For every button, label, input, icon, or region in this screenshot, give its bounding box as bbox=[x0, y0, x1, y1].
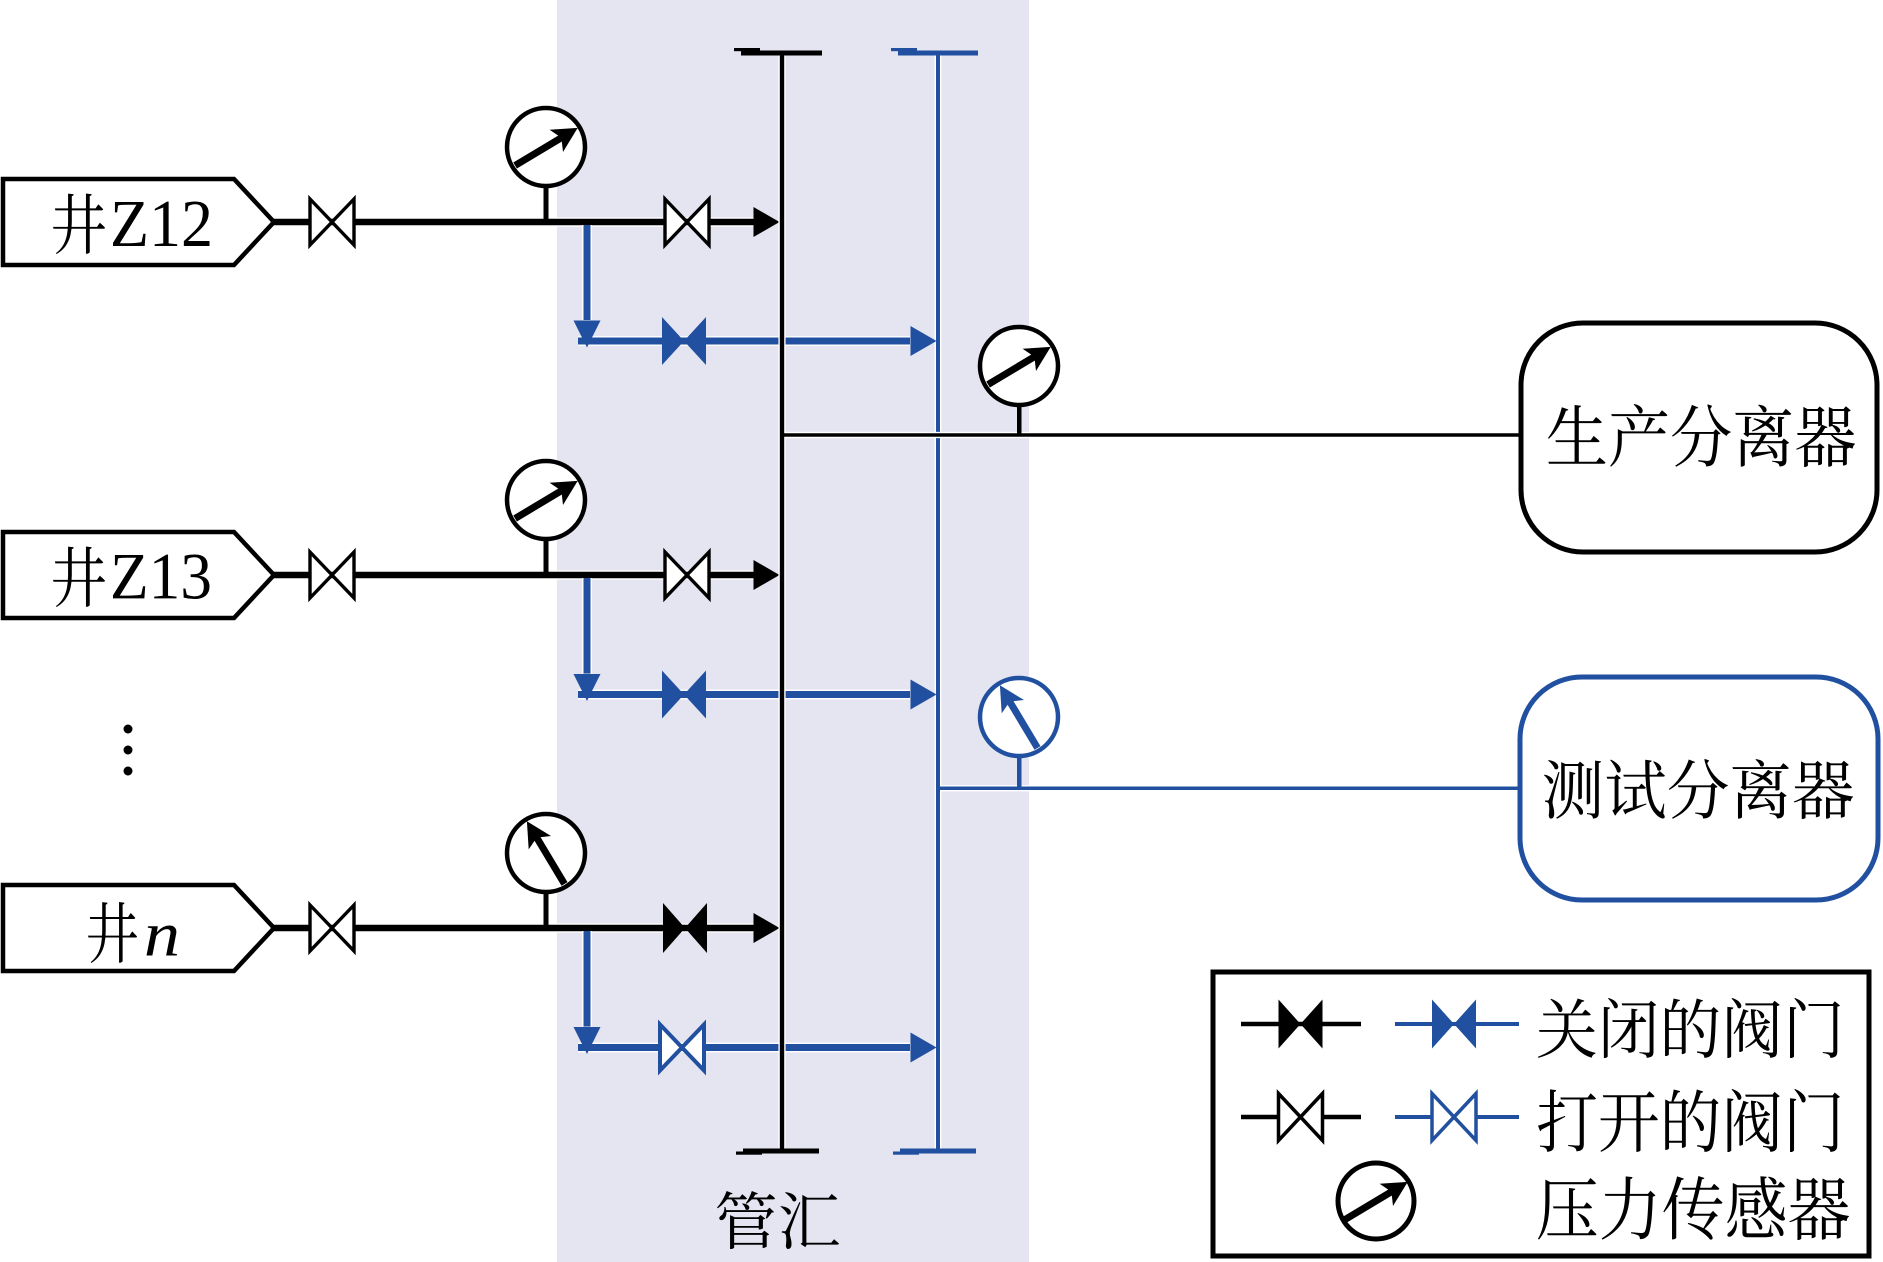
wire blue branch drop row 2 bbox=[582, 578, 592, 674]
pressure sensor stem on production line bbox=[1017, 396, 1022, 435]
test separator 测试分离器 bbox=[1520, 677, 1878, 900]
wire production manifold vertical bbox=[778, 54, 785, 1151]
wire blue branch horizontal row 1 bbox=[578, 336, 910, 346]
wire to test separator bbox=[937, 785, 1520, 791]
test manifold top end bar bbox=[891, 48, 978, 56]
pressure sensor on production line bbox=[980, 327, 1058, 405]
label 生产分离器 bbox=[1548, 404, 1855, 467]
legend closed blue valve bbox=[1395, 1000, 1519, 1049]
well label 井Z12 bbox=[53, 193, 209, 254]
pressure sensor row 3 bbox=[507, 814, 585, 892]
closed blue valve row 1 bbox=[662, 317, 706, 365]
wire test manifold vertical bbox=[935, 54, 942, 1151]
production separator 生产分离器 bbox=[1521, 323, 1877, 552]
wire main line row 3 (井n) bbox=[274, 923, 755, 932]
production manifold bottom end bar bbox=[736, 1149, 819, 1155]
black arrow into production manifold row 3 bbox=[754, 913, 780, 943]
open blue valve row 3 bbox=[660, 1025, 704, 1071]
pressure sensor stem row 2 bbox=[544, 530, 549, 575]
well symbol 井n bbox=[3, 885, 274, 971]
open valve near well row 2 bbox=[310, 552, 354, 598]
test manifold bottom end bar bbox=[893, 1149, 976, 1155]
wire main line row 2 (井Z13) bbox=[274, 570, 755, 579]
closed valve at manifold row 3 bbox=[663, 903, 707, 953]
blue down arrow row 2 bbox=[574, 674, 601, 701]
well symbol 井Z12 bbox=[3, 179, 274, 265]
legend label 打开的阀门 bbox=[1538, 1089, 1840, 1152]
black arrow into production manifold row 2 bbox=[754, 560, 780, 590]
pressure sensor stem on test line bbox=[1017, 748, 1022, 788]
wire to production separator bbox=[781, 432, 1521, 438]
legend closed black valve bbox=[1241, 1000, 1361, 1049]
label 管汇 bbox=[717, 1191, 839, 1249]
wire blue branch drop row 3 bbox=[582, 931, 592, 1027]
pressure sensor stem row 1 bbox=[544, 177, 549, 222]
legend label 压力传感器 bbox=[1538, 1176, 1849, 1240]
blue down arrow row 3 bbox=[574, 1027, 601, 1054]
open valve at manifold row 2 bbox=[665, 552, 709, 598]
blue right arrow into test manifold row 3 bbox=[911, 1033, 937, 1063]
black arrow into production manifold row 1 bbox=[754, 207, 780, 237]
production manifold top end bar bbox=[734, 48, 822, 56]
wire blue branch horizontal row 3 bbox=[578, 1043, 910, 1053]
open valve near well row 3 bbox=[310, 905, 354, 951]
closed blue valve row 2 bbox=[662, 671, 706, 719]
well label 井n bbox=[88, 902, 177, 963]
pressure sensor stem row 3 bbox=[544, 883, 549, 928]
legend open blue valve bbox=[1395, 1094, 1519, 1141]
open valve near well row 1 bbox=[310, 199, 354, 245]
ellipsis dots between wells bbox=[124, 725, 133, 776]
blue right arrow into test manifold row 1 bbox=[911, 326, 937, 356]
pressure sensor row 2 bbox=[507, 461, 585, 539]
open valve at manifold row 1 bbox=[665, 199, 709, 245]
legend label 关闭的阀门 bbox=[1538, 998, 1840, 1058]
well label 井Z13 bbox=[53, 546, 209, 607]
blue right arrow into test manifold row 2 bbox=[911, 680, 937, 710]
wire blue branch drop row 1 bbox=[582, 225, 592, 320]
legend pressure sensor bbox=[1338, 1163, 1414, 1239]
pressure sensor on test line bbox=[980, 678, 1058, 756]
manifold band 管汇 bbox=[557, 0, 1029, 1262]
blue down arrow row 1 bbox=[574, 321, 601, 348]
well symbol 井Z13 bbox=[3, 532, 274, 618]
wire blue branch horizontal row 2 bbox=[578, 690, 910, 700]
legend box bbox=[1213, 972, 1869, 1256]
wire main line row 1 (井Z12) bbox=[274, 217, 755, 226]
pressure sensor row 1 bbox=[507, 108, 585, 186]
legend open black valve bbox=[1241, 1094, 1361, 1141]
label 测试分离器 bbox=[1544, 759, 1853, 819]
